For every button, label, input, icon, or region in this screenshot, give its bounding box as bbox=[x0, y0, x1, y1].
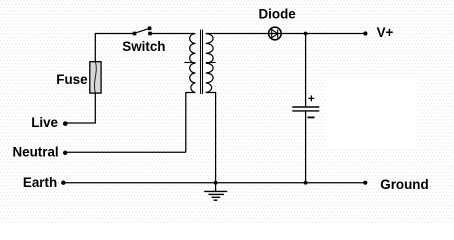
svg-text:Live: Live bbox=[31, 115, 58, 130]
svg-text:Fuse: Fuse bbox=[56, 72, 87, 87]
svg-text:Neutral: Neutral bbox=[13, 145, 59, 160]
svg-text:Diode: Diode bbox=[259, 7, 296, 22]
svg-text:Switch: Switch bbox=[122, 39, 165, 54]
svg-text:Ground: Ground bbox=[380, 177, 428, 192]
svg-text:V+: V+ bbox=[377, 25, 394, 40]
svg-text:Earth: Earth bbox=[23, 175, 57, 190]
